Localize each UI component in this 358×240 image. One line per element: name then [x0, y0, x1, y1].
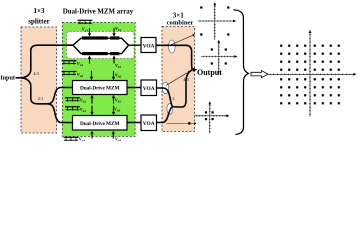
MZM1 inner white box [67, 32, 135, 59]
big constellation dots [280, 45, 340, 105]
splitter box 1x3 [21, 27, 57, 133]
wire J2 lower branch to MZM3 [48, 104, 73, 123]
wire J1 upper branch to MZM1 [21, 45, 73, 78]
combiner top path [156, 45, 192, 70]
PS3 line with dot [167, 122, 195, 124]
big constellation axes [267, 32, 354, 117]
svg-text:Dual-Drive MZM: Dual-Drive MZM [80, 121, 120, 127]
svg-text:2:1: 2:1 [169, 96, 175, 101]
drive arrows MZM3 top [92, 106, 114, 112]
drive arrows MZM2 bottom [92, 98, 114, 103]
phase shifter PS3 ellipse [167, 104, 173, 115]
drive arrows MZM1 bottom [90, 59, 115, 64]
svg-text:combiner: combiner [167, 20, 194, 27]
wire MZM3 to VOA3 [127, 122, 141, 124]
MZM array green box [62, 22, 135, 136]
svg-text:Va3: Va3 [79, 137, 86, 142]
output arrow [192, 69, 194, 71]
MZM1 electrodes upper [82, 36, 108, 39]
svg-text:Dual-Drive MZM array: Dual-Drive MZM array [63, 9, 134, 16]
combiner box 3x1 [162, 27, 195, 132]
VOA2 [141, 80, 157, 96]
svg-text:Input: Input [0, 74, 16, 81]
VOA3 [141, 115, 157, 131]
svg-text:VOA: VOA [143, 121, 155, 127]
double arrow [251, 71, 268, 78]
svg-text:Output: Output [197, 68, 222, 77]
wire J2 upper branch to MZM2 [48, 88, 73, 104]
svg-text:Vb3: Vb3 [115, 137, 122, 141]
svg-text:Dual-Drive MZM: Dual-Drive MZM [80, 86, 120, 92]
constellation 1 [198, 5, 234, 41]
drive arrows MZM1 top [90, 28, 115, 33]
PS2 arrow [166, 72, 189, 86]
svg-text:splitter: splitter [28, 17, 49, 25]
phase shifter PS1 ellipse [168, 40, 175, 53]
drive arrows MZM2 top [92, 71, 114, 77]
signal icon R6 [65, 106, 80, 108]
signal icon R2 below MZM1 [62, 60, 77, 62]
signal icon R1 above MZM1 [78, 19, 93, 21]
svg-text:4:3: 4:3 [33, 71, 39, 76]
constellation 3 [194, 104, 227, 134]
svg-text:VOA: VOA [143, 43, 155, 49]
MZM1 interferometer [67, 38, 142, 53]
MZM1 electrodes lower [82, 52, 108, 55]
combiner middle path [157, 88, 173, 107]
constellation 2 [201, 42, 235, 74]
wire input to splitter junction J1 [16, 77, 22, 79]
svg-text:3×1: 3×1 [173, 11, 184, 19]
drive labels [77, 26, 122, 143]
signal icon R8 below green box [64, 136, 79, 138]
VOA1 [141, 38, 156, 53]
MZM2 box [73, 81, 128, 95]
svg-text:VOA: VOA [143, 86, 155, 92]
svg-text:4:3: 4:3 [183, 77, 189, 82]
PS1 arrow [172, 35, 194, 44]
drive arrows MZM3 bottom [92, 134, 113, 139]
wire J1 lower branch trunk [21, 78, 48, 104]
combiner bottom path [157, 107, 173, 123]
wire MZM2 to VOA2 [127, 87, 141, 89]
phase shifter PS2 ellipse [162, 82, 168, 94]
combiner merged riser [172, 70, 192, 107]
brace [233, 10, 248, 135]
svg-text:2:1: 2:1 [38, 96, 44, 101]
MZM3 box [73, 116, 128, 131]
signal icon R3 [62, 71, 77, 73]
signal icon R5 [65, 97, 80, 99]
svg-text:1×3: 1×3 [34, 7, 45, 15]
